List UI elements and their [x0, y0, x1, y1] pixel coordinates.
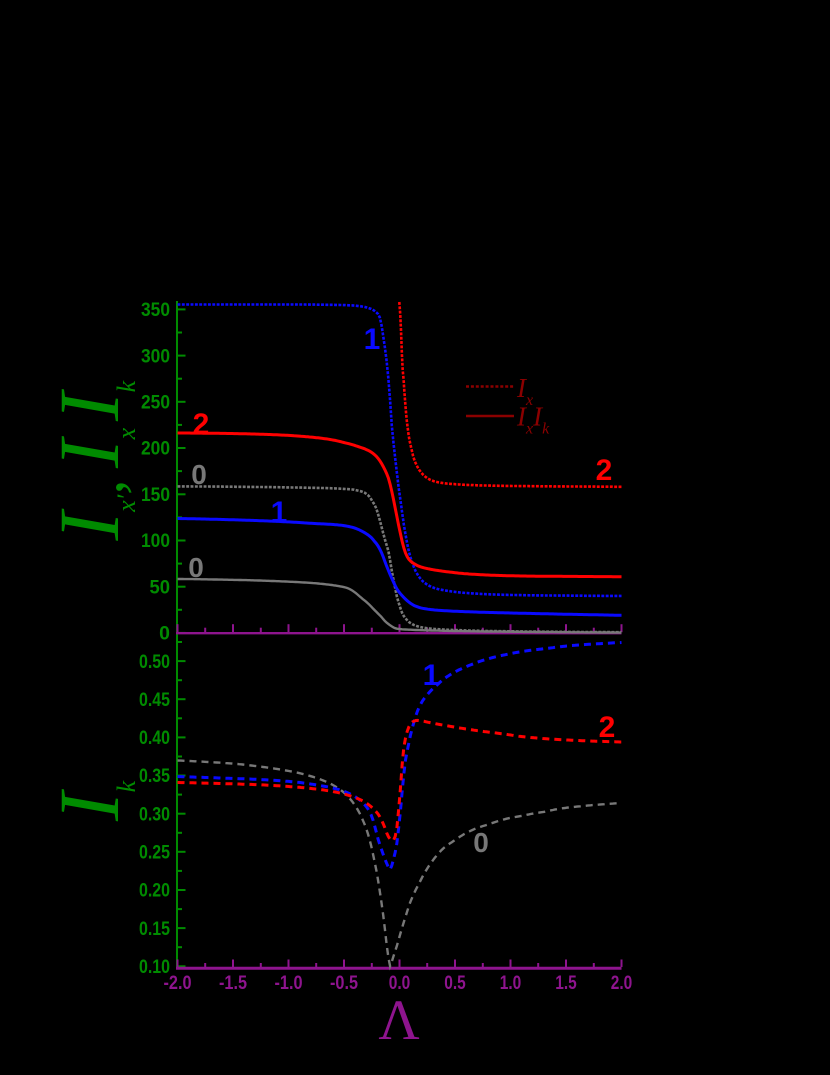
top panel: blue dotted curve I_x case 1 — [178, 305, 622, 596]
svg-text:0: 0 — [473, 827, 489, 858]
svg-text:0.40: 0.40 — [139, 728, 170, 749]
top panel y-axis major ticks — [177, 632, 186, 634]
svg-text:0.30: 0.30 — [139, 804, 170, 825]
svg-text:-0.5: -0.5 — [330, 973, 358, 994]
top panel y-axis (green) — [176, 301, 178, 969]
svg-text:200: 200 — [141, 439, 170, 460]
svg-text:0: 0 — [159, 624, 170, 645]
bottom panel x-axis ticks — [177, 960, 179, 968]
legend solid line — [466, 415, 514, 418]
bottom panel x-axis (magenta) — [176, 967, 622, 970]
svg-text:150: 150 — [141, 485, 170, 506]
svg-text:2.0: 2.0 — [611, 973, 633, 994]
svg-text:0.45: 0.45 — [139, 690, 170, 711]
svg-text:-1.0: -1.0 — [275, 973, 303, 994]
svg-text:0.15: 0.15 — [139, 919, 170, 940]
bottom panel: gray dashed curve I_k case 0 — [178, 761, 622, 967]
svg-text:300: 300 — [141, 346, 170, 367]
svg-text:0: 0 — [191, 459, 207, 490]
top panel: blue solid curve I_x I_k case 1 — [178, 519, 622, 616]
svg-text:0.35: 0.35 — [139, 766, 170, 787]
bottom panel y-axis minor ticks — [177, 946, 182, 948]
svg-text:0: 0 — [188, 552, 204, 583]
bottom panel: blue dashed curve I_k case 1 — [178, 643, 622, 870]
svg-text:1: 1 — [423, 659, 440, 692]
top panel y-axis minor ticks — [177, 609, 182, 611]
svg-text:-1.5: -1.5 — [219, 973, 247, 994]
svg-text:350: 350 — [141, 300, 170, 321]
svg-text:250: 250 — [141, 393, 170, 414]
svg-text:0.5: 0.5 — [444, 973, 466, 994]
bottom x tick labels — [164, 973, 633, 994]
svg-text:-2.0: -2.0 — [164, 973, 192, 994]
svg-text:1: 1 — [271, 496, 288, 529]
svg-text:Λ: Λ — [378, 989, 419, 1052]
bottom panel y-axis major ticks — [177, 965, 186, 967]
svg-text:2: 2 — [599, 711, 616, 744]
svg-text:2: 2 — [193, 408, 210, 441]
svg-text:100: 100 — [141, 531, 170, 552]
bottom panel y tick labels — [139, 652, 170, 978]
top panel: gray solid curve I_x I_k case 0 — [178, 579, 622, 633]
top panel x-axis (magenta, at v=0 boundary) — [176, 632, 622, 634]
svg-text:2: 2 — [596, 454, 613, 487]
svg-text:1.5: 1.5 — [555, 973, 577, 994]
svg-text:0.50: 0.50 — [139, 652, 170, 673]
top panel x-axis ticks — [177, 624, 179, 632]
top panel: gray dotted curve I_x case 0 — [178, 486, 622, 632]
svg-text:0.25: 0.25 — [139, 843, 170, 864]
svg-text:0.20: 0.20 — [139, 881, 170, 902]
svg-text:1: 1 — [364, 323, 381, 356]
top panel: red dotted curve I_x case 2 (resonance tail) — [399, 302, 621, 487]
top panel y tick labels — [141, 300, 170, 644]
legend dotted line — [466, 385, 514, 388]
bottom panel: red dashed curve I_k case 2 — [178, 720, 622, 840]
svg-text:50: 50 — [150, 577, 171, 598]
svg-text:1.0: 1.0 — [500, 973, 522, 994]
top panel: red solid curve I_x I_k case 2 — [178, 433, 622, 577]
